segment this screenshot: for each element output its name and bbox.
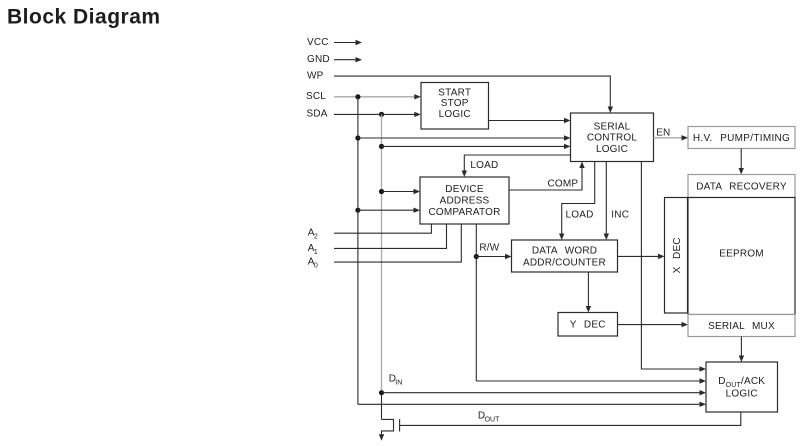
wire hv pump to data recovery [740, 149, 742, 170]
wire LOAD to data word counter [562, 162, 595, 235]
svg-text:ADDR/COUNTER: ADDR/COUNTER [523, 257, 606, 268]
wire SDA lower to transistor [381, 393, 383, 420]
wire A1 [334, 224, 447, 248]
junction SDA branch y191 [379, 189, 384, 194]
svg-text:DEVICE: DEVICE [445, 184, 484, 195]
svg-text:CONTROL: CONTROL [587, 133, 638, 144]
svg-text:COMPARATOR: COMPARATOR [428, 207, 500, 218]
svg-text:OUT: OUT [485, 416, 501, 423]
svg-text:EEPROM: EEPROM [719, 248, 764, 259]
junction SDA trunk top [379, 112, 384, 117]
svg-text:LOGIC: LOGIC [439, 109, 471, 120]
junction SCL trunk top [355, 94, 360, 99]
wire start stop out to serial control [489, 120, 566, 122]
wire SCL to serial control [358, 137, 565, 139]
svg-text:Y DEC: Y DEC [570, 320, 606, 331]
svg-text:R/W: R/W [479, 243, 499, 254]
svg-text:STOP: STOP [441, 98, 469, 109]
svg-text:DATA WORD: DATA WORD [532, 246, 597, 257]
box data recovery [688, 175, 795, 198]
wire DOUT from logic to gate [400, 412, 741, 425]
wire y dec to serial mux [618, 324, 684, 326]
box y dec [558, 313, 618, 337]
wire INC to data word counter [605, 162, 607, 235]
wire SDA segment [334, 113, 416, 115]
junction SCL branch y210 [355, 208, 360, 213]
svg-text:LOGIC: LOGIC [726, 388, 758, 399]
box serial control logic [571, 113, 654, 162]
wire data word to y dec [587, 272, 589, 307]
box data word addr counter [512, 240, 618, 272]
wire EN [654, 137, 684, 139]
svg-text:2: 2 [314, 234, 318, 241]
svg-text:LOAD: LOAD [470, 160, 498, 171]
wire RW to data word [476, 256, 506, 258]
svg-text:GND: GND [307, 54, 330, 65]
svg-text:SCL: SCL [306, 91, 326, 102]
svg-text:START: START [438, 87, 471, 98]
wire SCL to comparator [358, 209, 415, 211]
wire SDA to comparator [382, 191, 415, 193]
svg-text:INC: INC [611, 209, 629, 220]
box dout ack logic [706, 362, 778, 412]
svg-text:IN: IN [395, 380, 402, 387]
box eeprom [688, 198, 795, 315]
wire LOAD to comparator [464, 155, 570, 172]
svg-text:SERIAL MUX: SERIAL MUX [708, 321, 775, 332]
svg-text:SERIAL: SERIAL [594, 121, 631, 132]
svg-text:VCC: VCC [307, 37, 329, 48]
wire SDA to serial control [382, 145, 566, 147]
box serial mux [688, 315, 795, 337]
wire GND arrow [334, 59, 357, 61]
junction RW [474, 254, 479, 259]
wire SCL trunk vertical [357, 97, 359, 405]
transistor output mosfet [382, 419, 394, 435]
wire WP to serial control top [334, 76, 610, 107]
box device address comparator [420, 177, 509, 224]
svg-text:Block Diagram: Block Diagram [7, 6, 161, 29]
svg-text:ADDRESS: ADDRESS [440, 196, 490, 207]
box hv pump timing [688, 127, 795, 149]
box start stop logic [421, 83, 489, 130]
wire A2 [334, 224, 431, 233]
svg-text:X DEC: X DEC [672, 237, 683, 273]
wire COMP [509, 167, 582, 190]
svg-text:COMP: COMP [548, 179, 579, 190]
svg-text:SDA: SDA [307, 109, 328, 120]
wire serial mux to dout ack [740, 337, 742, 357]
svg-text:WP: WP [307, 70, 324, 81]
wire SCL bottom to dout ack [358, 403, 700, 405]
svg-text:EN: EN [656, 128, 670, 139]
wire VCC arrow [334, 42, 357, 44]
svg-text:0: 0 [314, 263, 318, 270]
junction DIN [379, 390, 384, 395]
svg-text:1: 1 [314, 249, 318, 256]
wire data word to x dec [618, 255, 660, 257]
wire SDA trunk vertical gray [381, 114, 383, 392]
wire A0 [334, 224, 461, 262]
wire serial control to dout ack logic [641, 162, 700, 370]
junction SCL branch y138 [355, 135, 360, 140]
svg-text:LOGIC: LOGIC [596, 144, 628, 155]
svg-text:LOAD: LOAD [566, 209, 594, 220]
wire RW to dout ack [476, 380, 700, 382]
box x dec [665, 198, 688, 314]
junction SDA branch y146 [379, 144, 384, 149]
wire RW vertical [475, 224, 477, 381]
wire DIN to dout ack [382, 392, 701, 394]
svg-text:H.V. PUMP/TIMING: H.V. PUMP/TIMING [693, 133, 790, 144]
svg-text:DATA RECOVERY: DATA RECOVERY [696, 181, 787, 192]
wire SCL gray segment [334, 96, 416, 98]
